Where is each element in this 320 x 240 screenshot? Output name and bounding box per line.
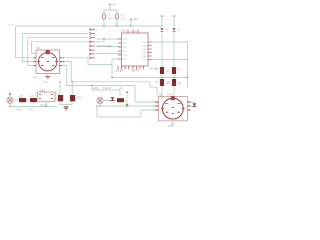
wire: cluster bottom to DIN2 pin row2 <box>100 105 158 107</box>
DIN X2 outer stubs <box>155 102 191 110</box>
optocoupler OK1 <box>37 92 55 101</box>
svg-text:IC1: IC1 <box>122 29 127 33</box>
svg-text:1N4148: 1N4148 <box>103 88 112 90</box>
resistor R6 <box>160 67 164 74</box>
IC1 left pin labels <box>123 39 128 61</box>
svg-text:DIN5: DIN5 <box>43 82 49 84</box>
wire: header row5 jog <box>96 45 110 48</box>
wire: C boxes bottoms join to ground <box>60 102 72 108</box>
wire: +5V arrow drop <box>130 21 132 26</box>
LED1 <box>97 97 103 103</box>
pin 2 <box>89 33 92 35</box>
svg-text:2: 2 <box>153 105 154 107</box>
IC1 right pin labels <box>142 42 147 62</box>
wire: DIN2 right pin stubs <box>191 102 195 109</box>
resistor R2 <box>30 98 37 102</box>
wire: header row4 jog <box>96 39 104 42</box>
wire: bottom-left row segments <box>14 94 59 100</box>
svg-text:VCC GND: VCC GND <box>127 31 138 33</box>
wire: DIN2 bottom stub <box>171 121 175 125</box>
wire: diode chain left verticals <box>161 17 163 100</box>
op IC1 body <box>122 33 149 66</box>
svg-text:+5V: +5V <box>133 18 138 21</box>
wire: long rail y=78 <box>112 77 188 79</box>
wire: nested L to DIN1 pin row 1 <box>16 26 34 58</box>
resistor R5 <box>117 98 124 102</box>
svg-text:5 6 7 8: 5 6 7 8 <box>132 71 140 73</box>
wire: IC lower-left pin and drop to rail78 <box>88 58 122 78</box>
wire: LED row horizontals <box>100 94 127 107</box>
resistor R9 <box>172 79 176 86</box>
power mark above cluster <box>126 91 128 93</box>
junction dots <box>9 25 188 107</box>
wire: DIN1 right pin1 to header pin7 <box>60 57 89 59</box>
pin 1 <box>89 28 92 30</box>
DIN X1 outer stubs <box>34 58 63 66</box>
capacitor C1 <box>102 14 106 19</box>
resistor R8 <box>172 67 176 74</box>
wire: DIN1 right pin3 down to rail78 <box>60 65 67 85</box>
wire: rail to DIN2 pin row1 <box>66 86 158 103</box>
wire: header to IC pin rows <box>96 39 122 54</box>
wire: nested L to DIN1 pin row 3 <box>28 38 88 66</box>
wire: long rail y=88 <box>71 82 157 97</box>
IC1 top pin stubs <box>128 30 138 33</box>
svg-text:10u: 10u <box>121 18 126 21</box>
DIN X1 inner pins <box>37 58 58 66</box>
svg-text:+5V: +5V <box>112 4 116 6</box>
diode near DIN X2 <box>193 103 197 106</box>
svg-text:220: 220 <box>178 82 183 85</box>
svg-text:100n: 100n <box>108 18 114 21</box>
wire: jack stub and ground rail bottom-left <box>10 94 57 107</box>
capacitor C2 <box>115 14 119 19</box>
svg-text:220: 220 <box>30 95 35 98</box>
pin 4 <box>89 41 92 43</box>
resistor R7 <box>160 79 164 86</box>
pin 8 <box>89 57 92 59</box>
svg-text:6: 6 <box>52 99 53 101</box>
wire: VCC drop and cap tops <box>104 6 117 14</box>
svg-text:GND: GND <box>9 24 14 26</box>
wire: rail88 down to cluster diode <box>92 86 120 97</box>
DIN X2 inner pins <box>161 103 185 113</box>
svg-text:100n: 100n <box>77 98 83 100</box>
svg-text:OK1: OK1 <box>40 89 46 93</box>
svg-text:MEGA8: MEGA8 <box>149 68 158 71</box>
svg-text:X1: X1 <box>37 46 41 50</box>
power +5V arrow mid <box>130 18 132 20</box>
pin header SV1 <box>89 28 98 60</box>
wire: cluster top rail <box>92 89 120 91</box>
IC1 right pin stubs <box>148 42 152 60</box>
wire: diode chain right verticals <box>173 17 175 100</box>
wire: DIN1 bottom stub <box>47 74 49 77</box>
svg-text:220: 220 <box>166 70 171 73</box>
svg-text:2: 2 <box>39 94 40 96</box>
wire: long top rail y=26 <box>16 25 162 27</box>
svg-text:GND: GND <box>33 77 38 79</box>
capacitor C4 <box>70 95 75 101</box>
svg-text:3: 3 <box>39 99 40 101</box>
wire: rail88 branch to C box1 <box>59 82 61 95</box>
svg-text:DIN5: DIN5 <box>167 94 173 97</box>
wire: nested L to DIN1 pin row 2 <box>22 34 88 62</box>
svg-text:GND: GND <box>28 110 33 112</box>
wire: nested L to DIN1 square top <box>32 42 89 54</box>
DIN connector X1 square <box>36 50 60 74</box>
capacitor C3 <box>58 95 63 101</box>
IC1 bottom pin stubs <box>118 66 144 69</box>
svg-text:1 2 3 4: 1 2 3 4 <box>116 71 124 73</box>
gnd tick at R5 end <box>126 103 128 105</box>
svg-text:DIN5: DIN5 <box>168 125 174 128</box>
svg-text:LED1: LED1 <box>93 88 99 90</box>
wire: DIN1 right pin2 down to rail88 <box>60 62 72 82</box>
DIN connector X2 square <box>158 97 187 121</box>
diode D2 <box>173 28 176 31</box>
wire: IC right pin row to far right vertical <box>152 42 188 60</box>
DIN X2 circle <box>162 98 183 119</box>
pin 3 <box>89 37 92 39</box>
svg-text:8: 8 <box>52 94 53 96</box>
wire: opto left pin stubs <box>36 94 38 99</box>
DIN X1 key notch <box>46 50 50 54</box>
resistor R1 <box>19 98 26 102</box>
svg-text:220: 220 <box>19 95 24 98</box>
wire: cap bottoms to GND rail <box>104 20 117 27</box>
DIN X1 circle <box>39 53 57 71</box>
pin 5 <box>89 45 92 47</box>
diode D3 <box>111 97 114 100</box>
power +5V symbol top <box>109 3 111 5</box>
pin 7 <box>89 53 92 55</box>
jack J1 <box>7 97 13 103</box>
wire: rail88 branch to C box2 <box>71 82 73 95</box>
svg-text:1: 1 <box>153 101 154 103</box>
DIN X2 key notch <box>171 96 175 100</box>
diode D1 <box>161 28 164 31</box>
pin 6 <box>89 49 92 51</box>
IC1 left pin stubs <box>118 39 122 59</box>
svg-text:3: 3 <box>153 109 154 111</box>
svg-text:6N138: 6N138 <box>40 104 48 107</box>
wire: far right vertical <box>187 42 189 88</box>
wire: DIN2 left pin3 stub <box>97 106 158 117</box>
svg-text:GND: GND <box>16 110 21 112</box>
ground symbol <box>64 107 69 110</box>
